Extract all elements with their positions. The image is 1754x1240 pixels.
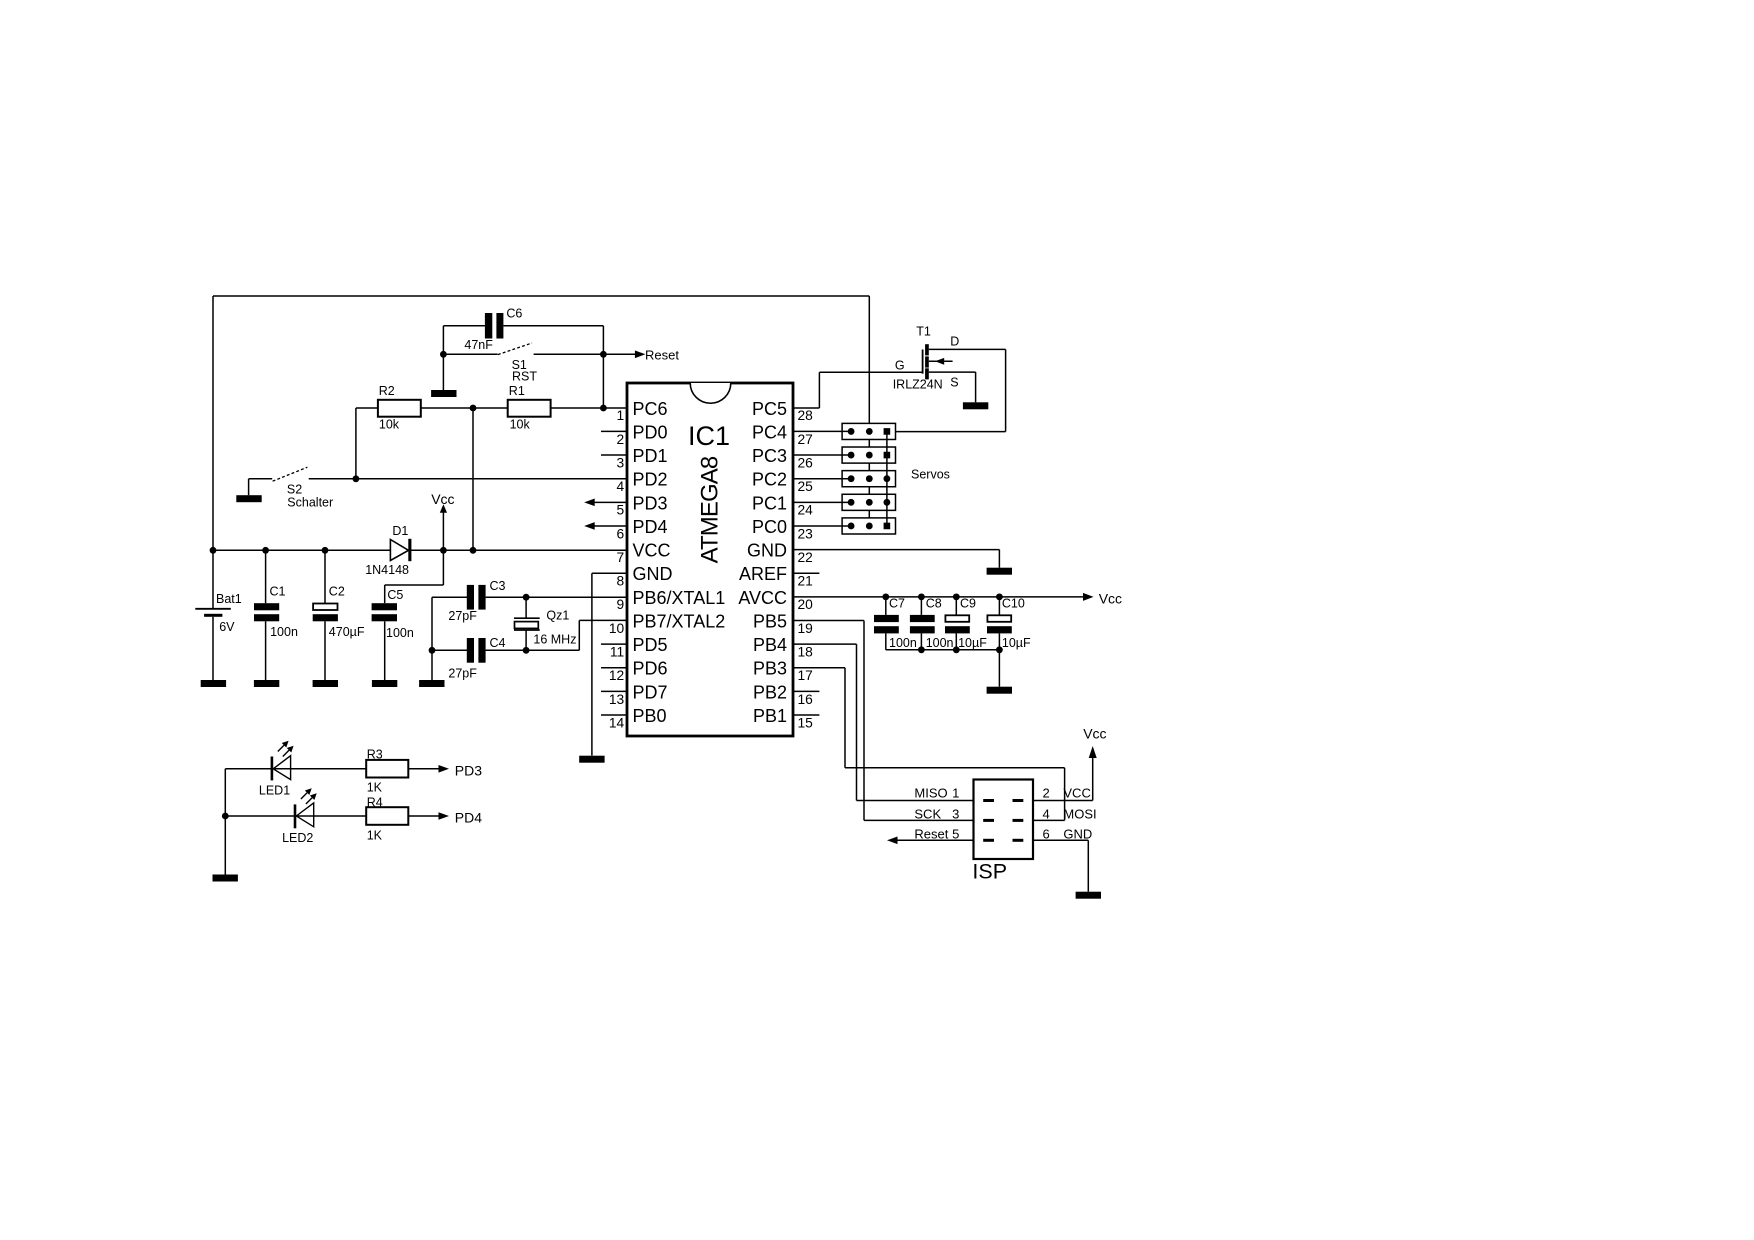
svg-text:Qz1: Qz1 — [546, 609, 569, 623]
label Qz1 value 16 MHz — [533, 633, 576, 647]
svg-text:24: 24 — [798, 503, 814, 518]
label Vcc right — [1099, 591, 1122, 607]
svg-text:10µF: 10µF — [1002, 636, 1031, 650]
wire pin 8 GND — [592, 573, 627, 755]
svg-text:R1: R1 — [509, 384, 525, 398]
label T1 value IRLZ24N — [893, 378, 943, 392]
svg-text:5: 5 — [617, 503, 625, 518]
battery Bat1 minus plate — [204, 614, 222, 617]
crystal Qz1 plate top — [514, 617, 540, 619]
node junction rail-C10 — [996, 646, 1003, 653]
wire PB3 to MOSI — [793, 668, 1065, 821]
label C7 value 100n — [889, 636, 917, 650]
svg-text:C2: C2 — [329, 585, 345, 599]
node junction rail-C8 — [918, 646, 925, 653]
svg-text:R4: R4 — [367, 796, 383, 810]
label C9 value 10uF — [958, 636, 987, 650]
svg-text:Servos: Servos — [911, 468, 950, 482]
svg-text:20: 20 — [798, 597, 814, 612]
net arrow PD4 pin 6 — [584, 522, 627, 530]
svg-text:C9: C9 — [960, 596, 976, 610]
label C4 value 27pF — [448, 667, 477, 681]
label Qz1 — [546, 609, 569, 623]
wire LED2 to R4 — [0, 0, 1, 1]
wire R4 to PD4 arrow — [408, 815, 439, 817]
wire ISP GND to ground — [1033, 840, 1088, 891]
net arrow Vcc AVCC — [1083, 593, 1094, 601]
wire C6 left horizontal — [443, 325, 485, 327]
ground C1 — [254, 680, 279, 687]
wire servo center column — [868, 296, 870, 526]
svg-text:26: 26 — [798, 455, 814, 470]
capacitor C10 lead top — [998, 597, 1000, 615]
diode D1 triangle — [390, 540, 408, 561]
node junction rail-C1 — [262, 547, 269, 554]
capacitor C7 lead bottom — [885, 633, 887, 649]
label C5 — [387, 588, 403, 602]
connector Servos rows (pins PC4..PC0) — [793, 423, 896, 534]
wire C3 to pin 9 XTAL1 — [486, 596, 627, 598]
svg-text:Vcc: Vcc — [1099, 591, 1122, 607]
switch S2 left contact — [249, 478, 273, 480]
ic pin stubs right (AREF PB2 PB1) — [793, 573, 819, 715]
wire C3 left lead — [432, 596, 467, 598]
label C6 — [506, 307, 522, 321]
label Bat1 — [216, 592, 242, 606]
svg-text:PD0: PD0 — [633, 422, 668, 442]
svg-text:1K: 1K — [367, 781, 383, 795]
ground pin 8 — [579, 756, 604, 763]
wire C6 right horizontal — [503, 325, 603, 327]
svg-text:10k: 10k — [379, 418, 400, 432]
capacitor C3 plates — [467, 585, 486, 610]
transistor T1 channel bars — [925, 344, 929, 379]
wire source to ground — [929, 372, 976, 402]
label C3 — [490, 579, 506, 593]
svg-text:PD6: PD6 — [633, 659, 668, 679]
capacitor C8 plates — [910, 615, 935, 634]
svg-text:LED2: LED2 — [282, 831, 313, 845]
svg-text:ISP: ISP — [972, 860, 1007, 884]
svg-text:PD1: PD1 — [633, 446, 668, 466]
svg-text:Schalter: Schalter — [287, 495, 333, 509]
svg-text:1N4148: 1N4148 — [365, 563, 409, 577]
svg-text:VCC: VCC — [633, 541, 671, 561]
svg-text:1: 1 — [617, 408, 625, 423]
svg-text:C1: C1 — [270, 585, 286, 599]
capacitor C8 lead top — [920, 597, 922, 615]
wire pin 28 to gate — [793, 372, 923, 408]
wire S2 ground post — [248, 479, 250, 495]
svg-text:LED1: LED1 — [259, 783, 290, 797]
svg-text:C6: C6 — [506, 307, 522, 321]
label T1 — [916, 325, 931, 339]
svg-text:PB6/XTAL1: PB6/XTAL1 — [633, 588, 726, 608]
ground C2 — [313, 680, 338, 687]
svg-text:12: 12 — [609, 668, 624, 683]
svg-text:100n: 100n — [386, 626, 414, 640]
label LED1 — [259, 783, 290, 797]
svg-text:10k: 10k — [510, 418, 531, 432]
label C8 value 100n — [926, 636, 954, 650]
wire left border Vcc net — [212, 296, 214, 550]
wire LED1 row left corner — [225, 769, 366, 875]
label ISP pin 2 VCC — [1043, 785, 1091, 800]
node junction R1-R2 — [470, 405, 477, 412]
capacitor C6 plates — [485, 313, 504, 339]
label Reset net — [645, 348, 679, 363]
label C2 — [329, 585, 345, 599]
resistor R2 body — [378, 400, 421, 417]
transistor T1 substrate arrow — [929, 358, 953, 365]
label C1 value 100n — [270, 625, 298, 639]
svg-text:19: 19 — [798, 621, 814, 636]
wire C5 to rail — [385, 550, 444, 603]
node junction C7 — [882, 593, 889, 600]
wire ISP Reset out — [897, 839, 974, 841]
wire C3-C4 ground column — [431, 597, 433, 680]
node junction crystal bottom — [523, 647, 530, 654]
label ISP — [972, 860, 1007, 884]
svg-text:27: 27 — [798, 432, 813, 447]
connector ISP body — [974, 780, 1034, 860]
svg-text:28: 28 — [798, 408, 814, 423]
crystal Qz1 body — [515, 622, 539, 629]
svg-text:C4: C4 — [490, 636, 506, 650]
label S1 — [512, 358, 527, 372]
ic pin stubs left (PD0 PD1 PD5 PD6 PD7 PB0) — [601, 431, 627, 715]
svg-text:10µF: 10µF — [958, 636, 987, 650]
label ISP pin Reset 5 — [914, 827, 959, 842]
led LED2 light arrows — [301, 788, 317, 804]
svg-text:3: 3 — [952, 806, 959, 821]
label R2 value 10k — [379, 418, 400, 432]
node junction S2-R2 — [353, 475, 360, 482]
label PD4 net — [455, 809, 482, 825]
label LED2 — [282, 831, 313, 845]
node junction C4-gnd — [429, 647, 436, 654]
net arrow PD3 — [439, 765, 450, 773]
svg-text:C7: C7 — [889, 596, 905, 610]
ic IC1 notch — [690, 383, 731, 403]
led LED1 light arrows — [278, 741, 294, 757]
svg-text:2: 2 — [1043, 785, 1050, 800]
node junction C8 — [918, 593, 925, 600]
label R3 value 1K — [367, 781, 383, 795]
label ISP pin SCK 3 — [914, 806, 959, 821]
svg-text:RST: RST — [512, 370, 537, 384]
svg-text:18: 18 — [798, 645, 814, 660]
node junction LED2 row — [222, 813, 229, 820]
switch S2 blade — [273, 467, 308, 481]
capacitor C5 plates — [372, 603, 397, 621]
net arrow PD4 — [439, 812, 450, 820]
wire C6 left vertical — [442, 326, 444, 355]
svg-text:GND: GND — [633, 564, 673, 584]
capacitor C7 lead top — [885, 597, 887, 615]
ground battery — [201, 680, 226, 687]
capacitor C1 lead bottom — [265, 621, 267, 680]
resistor R1 body — [508, 400, 551, 417]
label S source — [950, 375, 958, 389]
svg-text:8: 8 — [617, 574, 625, 589]
svg-text:ATMEGA8: ATMEGA8 — [696, 456, 723, 563]
wire AVCC Vcc rail — [793, 596, 1083, 598]
wire top border Vcc net — [213, 295, 869, 297]
ground LED common — [213, 875, 238, 882]
svg-text:7: 7 — [617, 550, 625, 565]
switch S1 left contact wire — [443, 353, 497, 355]
wire Vcc arrow stem — [442, 512, 444, 550]
svg-text:1K: 1K — [367, 828, 383, 842]
node junction rail-C9 — [953, 646, 960, 653]
led LED2 triangle — [296, 803, 313, 827]
label C7 — [889, 596, 905, 610]
battery Bat1 lead top — [212, 550, 214, 608]
node servo right column junctions — [884, 428, 891, 529]
label C8 — [926, 596, 942, 610]
svg-text:Vcc: Vcc — [431, 491, 454, 507]
svg-text:R3: R3 — [367, 748, 383, 762]
capacitor C5 lead bottom — [384, 621, 386, 680]
svg-text:1: 1 — [952, 785, 959, 800]
svg-text:6: 6 — [1043, 827, 1050, 842]
wire R-divider junction to rail — [472, 408, 474, 550]
svg-text:MISO: MISO — [914, 785, 947, 800]
node junction C10 — [996, 593, 1003, 600]
wire drain to servo column — [896, 349, 1006, 431]
wire R2 to PD2 net — [355, 408, 357, 479]
capacitor C10 plates electrolytic — [987, 615, 1012, 633]
svg-text:Vcc: Vcc — [1083, 726, 1106, 742]
svg-text:GND: GND — [747, 541, 787, 561]
wire S2 to PD2 pin 4 — [309, 478, 627, 480]
wire Vcc rail diode to IC pin 7 — [410, 549, 627, 551]
capacitor C1 plates — [254, 603, 279, 621]
wire R3 to PD3 arrow — [408, 768, 439, 770]
label R1 value 10k — [510, 418, 531, 432]
svg-text:47nF: 47nF — [464, 338, 493, 352]
label D1 — [392, 524, 408, 538]
svg-text:R2: R2 — [379, 384, 395, 398]
svg-text:PC0: PC0 — [752, 517, 787, 537]
label R4 value 1K — [367, 828, 383, 842]
label Vcc ISP — [1083, 726, 1106, 742]
svg-text:4: 4 — [617, 479, 625, 494]
svg-text:PB2: PB2 — [753, 682, 787, 702]
svg-text:21: 21 — [798, 574, 813, 589]
label C9 — [960, 596, 976, 610]
svg-text:PD4: PD4 — [633, 517, 668, 537]
label R4 — [367, 796, 383, 810]
svg-text:MOSI: MOSI — [1063, 806, 1096, 821]
svg-text:Bat1: Bat1 — [216, 592, 242, 606]
ground ISP — [1076, 892, 1101, 899]
wire S1 to Reset — [534, 353, 636, 355]
svg-text:PD5: PD5 — [633, 635, 668, 655]
wire LED2 row — [225, 815, 366, 817]
diode D1 cathode bar — [408, 539, 411, 561]
svg-text:D1: D1 — [392, 524, 408, 538]
svg-text:PD3: PD3 — [455, 762, 482, 778]
svg-text:4: 4 — [1043, 806, 1050, 821]
net arrow Reset — [635, 351, 646, 359]
capacitor C8 lead bottom — [920, 633, 922, 649]
node junction rail-battery — [210, 547, 217, 554]
svg-text:PB1: PB1 — [753, 706, 787, 726]
svg-text:D: D — [950, 335, 959, 349]
svg-text:22: 22 — [798, 550, 813, 565]
wire servo right column — [886, 431, 888, 526]
label D drain — [950, 335, 959, 349]
ground C10 rail — [987, 687, 1012, 694]
svg-text:PC5: PC5 — [752, 399, 787, 419]
wire ISP VCC to Vcc arrow — [1033, 758, 1093, 801]
label R2 — [379, 384, 395, 398]
wire decoupling ground rail — [886, 649, 1000, 651]
wire pin 10 XTAL2 — [579, 620, 627, 650]
ground C5 — [372, 680, 397, 687]
net arrow PD3 pin 5 — [584, 499, 627, 507]
svg-text:9: 9 — [617, 597, 625, 612]
capacitor C9 plates electrolytic — [945, 615, 970, 633]
capacitor C4 plates — [467, 638, 486, 663]
svg-text:5: 5 — [952, 827, 959, 842]
svg-text:Reset: Reset — [914, 827, 948, 842]
label R3 — [367, 748, 383, 762]
node junction C6-gnd-S1 — [440, 351, 447, 358]
svg-text:14: 14 — [609, 715, 625, 730]
ground T1 source — [963, 402, 988, 409]
svg-text:PB7/XTAL2: PB7/XTAL2 — [633, 611, 726, 631]
capacitor C7 plates — [874, 615, 899, 634]
ground C3 C4 — [419, 680, 444, 687]
svg-text:AREF: AREF — [739, 564, 787, 584]
node junction pin1-reset — [600, 405, 607, 412]
resistor R4 body — [366, 807, 408, 825]
wire C6 right vertical — [602, 326, 604, 408]
label S2 Schalter — [287, 495, 333, 509]
wire pin 22 GND — [793, 550, 999, 568]
label Servos — [911, 468, 950, 482]
svg-text:100n: 100n — [889, 636, 917, 650]
svg-text:PD7: PD7 — [633, 682, 668, 702]
led LED1 cathode bar — [271, 757, 274, 781]
svg-text:25: 25 — [798, 479, 814, 494]
wire R2 left lead — [356, 407, 378, 409]
svg-text:17: 17 — [798, 668, 813, 683]
label C6 value 47nF — [464, 338, 493, 352]
svg-text:6V: 6V — [219, 620, 235, 634]
label ATMEGA8 — [696, 456, 723, 563]
svg-text:PB0: PB0 — [633, 706, 667, 726]
label C2 value 470uF — [329, 625, 365, 639]
svg-text:100n: 100n — [926, 636, 954, 650]
label S2 — [287, 483, 302, 497]
label C3 value 27pF — [448, 609, 477, 623]
svg-text:C5: C5 — [387, 588, 403, 602]
wire C4 left lead — [432, 649, 467, 651]
label C1 — [270, 585, 286, 599]
label PD3 net — [455, 762, 482, 778]
svg-text:15: 15 — [798, 715, 814, 730]
connector ISP pin stubs — [983, 799, 1023, 842]
svg-text:IRLZ24N: IRLZ24N — [893, 378, 943, 392]
ground pin 22 — [987, 568, 1012, 575]
svg-text:16: 16 — [798, 692, 814, 707]
resistor R3 body — [366, 760, 408, 778]
label ISP pin MISO 1 — [914, 785, 959, 800]
svg-text:PB5: PB5 — [753, 611, 787, 631]
svg-text:2: 2 — [617, 432, 625, 447]
capacitor C2 lead bottom — [324, 621, 326, 680]
net arrow Reset ISP — [887, 837, 898, 845]
label ISP pin 6 GND — [1043, 827, 1093, 842]
capacitor C9 lead top — [955, 597, 957, 615]
svg-text:11: 11 — [610, 645, 624, 660]
wire R2 right lead — [421, 407, 508, 409]
svg-text:PC6: PC6 — [633, 399, 668, 419]
label Vcc left — [431, 491, 454, 507]
svg-text:GND: GND — [1063, 827, 1092, 842]
capacitor C9 lead bottom — [955, 633, 957, 649]
crystal Qz1 plate bottom — [514, 629, 540, 631]
svg-text:100n: 100n — [270, 625, 298, 639]
svg-text:T1: T1 — [916, 325, 931, 339]
battery Bat1 lead bottom — [212, 617, 214, 680]
label IC1 — [688, 421, 730, 451]
svg-text:PC2: PC2 — [752, 470, 787, 490]
ground S2 — [236, 495, 261, 502]
led LED2 cathode bar — [294, 804, 297, 828]
crystal Qz1 lead bottom — [525, 630, 527, 650]
label C4 — [490, 636, 506, 650]
svg-text:470µF: 470µF — [329, 625, 365, 639]
svg-text:PC3: PC3 — [752, 446, 787, 466]
svg-text:PD3: PD3 — [633, 493, 668, 513]
node junction crystal top — [523, 594, 530, 601]
svg-text:PD2: PD2 — [633, 470, 668, 490]
label ISP pin 4 MOSI — [1043, 806, 1097, 821]
node junction rail-Vcc-arrow — [440, 547, 447, 554]
svg-text:PC1: PC1 — [752, 493, 787, 513]
svg-text:13: 13 — [609, 692, 625, 707]
svg-text:IC1: IC1 — [688, 421, 730, 451]
svg-text:G: G — [895, 358, 905, 372]
wire R1 right lead to pin 1 — [551, 407, 627, 409]
wire PB5 to SCK — [793, 620, 974, 820]
label C10 — [1002, 596, 1025, 610]
crystal Qz1 lead top — [525, 597, 527, 618]
svg-text:VCC: VCC — [1063, 785, 1090, 800]
label S1 RST — [512, 370, 537, 384]
battery Bat1 plus plate — [195, 608, 231, 610]
switch S1 blade — [498, 343, 532, 355]
svg-text:6: 6 — [617, 526, 625, 541]
capacitor C1 lead top — [265, 550, 267, 603]
wire LED1 to R3 — [0, 0, 1, 1]
led LED1 triangle — [273, 756, 290, 780]
svg-text:AVCC: AVCC — [738, 588, 787, 608]
node junction S1-pin1-vertical — [600, 351, 607, 358]
svg-text:PD4: PD4 — [455, 809, 482, 825]
svg-text:Reset: Reset — [645, 348, 679, 363]
label R1 — [509, 384, 525, 398]
label 6V — [219, 620, 235, 634]
node junction rail-C2 — [322, 547, 329, 554]
capacitor C10 lead bottom — [998, 633, 1000, 686]
svg-text:23: 23 — [798, 526, 814, 541]
